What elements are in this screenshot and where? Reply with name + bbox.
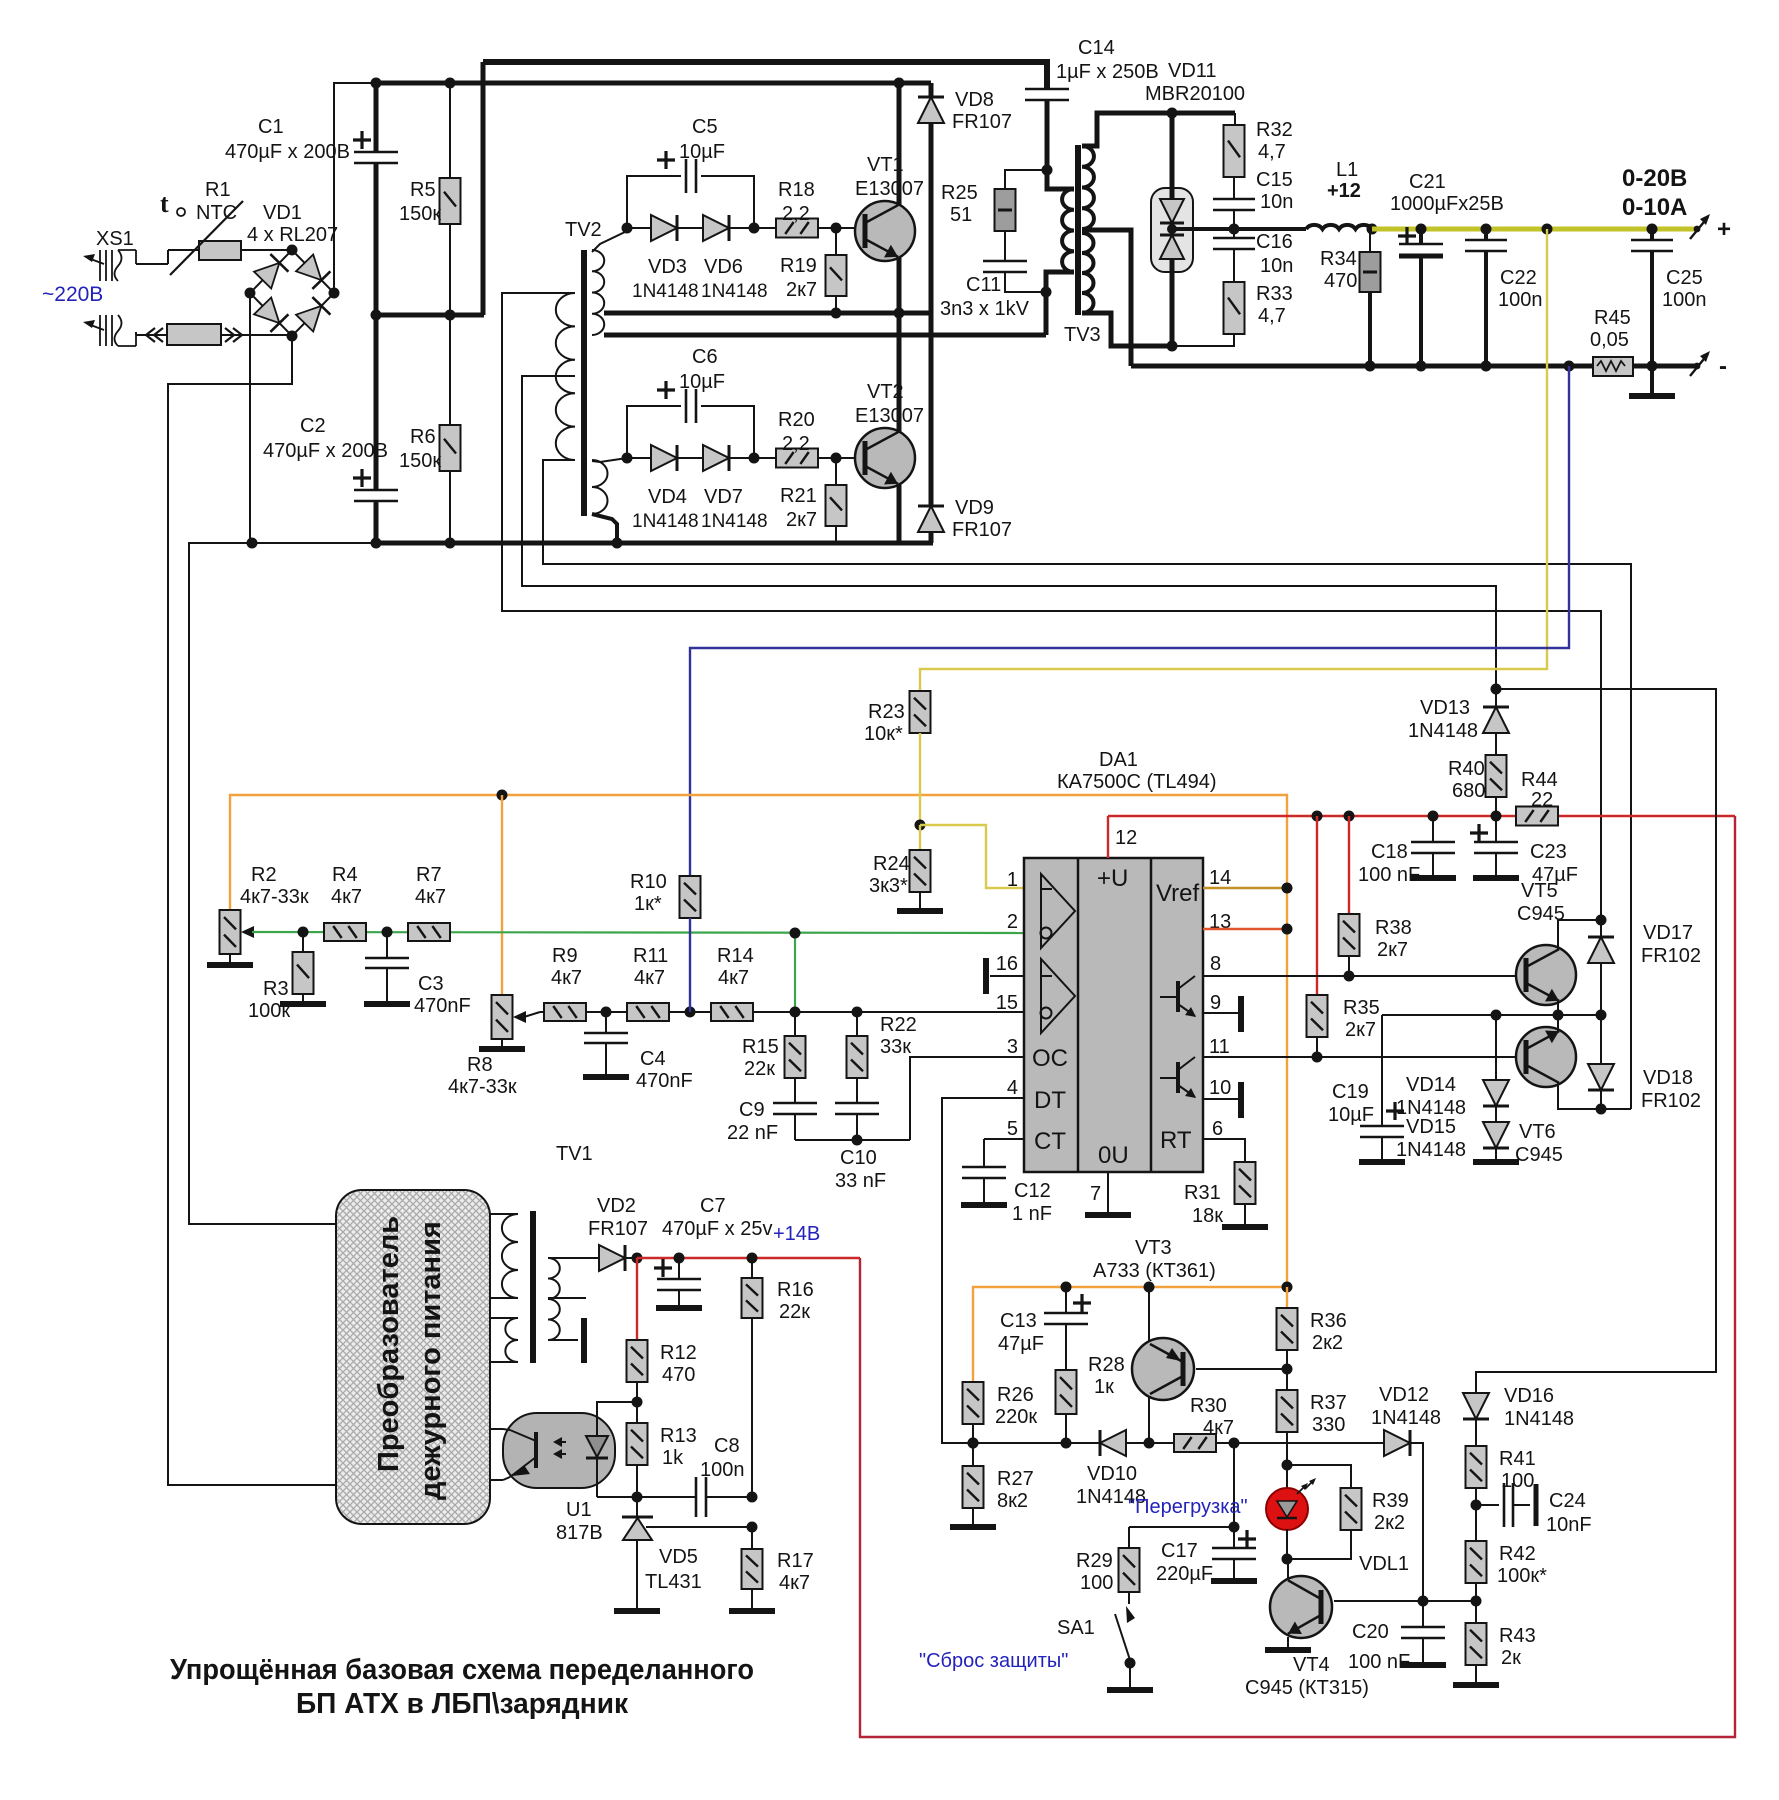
resistor R28 1k [1056,1370,1077,1414]
svg-text:VD11: VD11 [1168,60,1217,82]
svg-text:E13007: E13007 [855,178,924,200]
resistor R5 150k [449,83,451,178]
svg-text:R26: R26 [997,1384,1034,1406]
output transistor 1 inside DA1 [1176,981,1180,1012]
wire red to R38 [1348,816,1350,914]
resistor R41 100 [1475,1419,1477,1446]
resistor R39 2k2 [1341,1488,1362,1530]
svg-text:C945: C945 [1515,1144,1563,1166]
svg-text:2к7: 2к7 [786,509,817,531]
ground under C4 [583,1074,629,1080]
svg-text:470: 470 [662,1364,695,1386]
svg-text:+14В: +14В [773,1223,820,1245]
svg-text:C18: C18 [1371,841,1408,863]
ground under R24 [897,908,943,914]
svg-text:FR107: FR107 [952,519,1012,541]
svg-text:C8: C8 [714,1435,740,1457]
pin 6 wire to R31 [1203,1139,1245,1162]
svg-text:10n: 10n [1260,255,1293,277]
resistor R25 51 snubber [1005,170,1047,189]
transformer TV1 primary winding upper [490,1213,518,1215]
svg-text:XS1: XS1 [96,228,134,250]
ground under C12 [961,1202,1007,1208]
svg-text:100: 100 [1080,1572,1113,1594]
resistor R29 100 [1128,1527,1130,1548]
svg-text:t: t [160,189,169,218]
wire VT5 collector [1558,920,1601,950]
svg-text:R32: R32 [1256,119,1293,141]
resistor R16 22k [751,1258,753,1278]
svg-text:4к7: 4к7 [718,967,749,989]
wire TV3 center tap to minus rail [1082,230,1131,366]
svg-text:4,7: 4,7 [1258,305,1286,327]
svg-text:1µF x 250В: 1µF x 250В [1056,61,1159,83]
svg-text:8к2: 8к2 [997,1490,1028,1512]
svg-text:10к*: 10к* [864,723,903,745]
diode VD6 1N4148 [677,227,704,229]
transformer TV3 secondary winding lower [1082,233,1094,313]
svg-text:TV1: TV1 [556,1143,593,1165]
svg-text:КА7500С (TL494): КА7500С (TL494) [1057,771,1217,793]
resistor R38 2k7 [1339,914,1360,956]
resistor R10 1k [680,876,701,918]
svg-text:Преобразователь: Преобразователь [373,1216,405,1472]
svg-text:2к: 2к [1501,1647,1521,1669]
connector XS1 mains plug [88,258,104,264]
comparator 1 inside DA1 [1041,874,1075,948]
svg-text:А733 (КТ361): А733 (КТ361) [1093,1260,1216,1282]
wire orange emitter rail nodes [1061,1282,1072,1293]
svg-text:22к: 22к [779,1301,810,1323]
svg-text:L1: L1 [1336,159,1358,181]
svg-text:10µF: 10µF [679,141,725,163]
svg-text:R14: R14 [717,945,754,967]
wire TV2 upper secondary top to VD3 [592,228,627,252]
transistor VT4 C945 KT315 [1270,1576,1332,1638]
wire opto collector stub [490,1428,503,1430]
svg-text:33 nF: 33 nF [835,1170,886,1192]
svg-text:1 nF: 1 nF [1012,1203,1052,1225]
svg-text:C22: C22 [1500,267,1537,289]
svg-text:C5: C5 [692,116,718,138]
svg-text:R31: R31 [1184,1182,1221,1204]
wire VT1 emitter to rail [897,257,902,313]
svg-text:+: + [1717,216,1731,243]
svg-text:1N4148: 1N4148 [1408,720,1478,742]
svg-text:1N4148: 1N4148 [632,281,699,302]
bus capacitor midpoint rail [376,313,484,318]
transistor VT2 E13007 [855,428,915,488]
wire bridge right corner to top bus [334,83,378,293]
svg-text:VD4: VD4 [648,486,687,508]
wire bridge bottom to standby converter line [168,336,336,1485]
ground under R2 [207,962,253,968]
resistor R30 4k7 [1174,1434,1216,1452]
transistor VT3 A733 PNP [1132,1338,1194,1400]
comparator 2 inside DA1 [1041,959,1075,1033]
resistor R26 220k [963,1382,984,1424]
wire VT4 emitter to ground [1287,1637,1289,1648]
svg-text:VD7: VD7 [704,486,743,508]
svg-text:14: 14 [1209,867,1231,889]
svg-text:VT5: VT5 [1521,880,1558,902]
switch SA1 reset [1128,1592,1130,1604]
node VD13 top rail junction [1491,684,1502,695]
wire VT4 collector up [1287,1559,1289,1578]
node R12 R13 opto junction [632,1397,643,1408]
svg-text:C25: C25 [1666,267,1703,289]
transformer TV2 primary winding [556,293,575,460]
capacitor C12 1nF [962,1166,1006,1169]
wire VT1 collector to top rail [897,83,902,206]
capacitor C6 10uF [627,406,681,458]
svg-text:18к: 18к [1192,1205,1223,1227]
transformer TV3 core [1075,145,1081,315]
bus red supply rail [1108,815,1516,817]
svg-text:E13007: E13007 [855,405,924,427]
svg-text:RT: RT [1160,1127,1192,1154]
svg-text:NTC: NTC [196,202,237,224]
wire TV2 lower secondary top to VD4 [592,458,627,462]
ground under C18 [1410,875,1456,881]
svg-text:1N4148: 1N4148 [1371,1407,1441,1429]
svg-text:4к7: 4к7 [779,1572,810,1594]
svg-text:150к: 150к [399,203,441,225]
wire TV2 primary bottom to VT6 rail [543,460,1631,1109]
capacitor C7 470uF x 25v [678,1258,680,1278]
resistor R21 2k7 [835,458,837,485]
svg-text:51: 51 [950,204,972,226]
svg-text:-: - [1719,353,1727,380]
svg-text:1N4148: 1N4148 [701,281,768,302]
svg-text:VD10: VD10 [1087,1463,1137,1485]
svg-text:R24: R24 [873,853,910,875]
wire XS1 to fuse [135,332,137,335]
svg-text:R6: R6 [410,426,436,448]
svg-text:дежурного питания: дежурного питания [415,1221,447,1500]
svg-text:TV2: TV2 [565,219,602,241]
resistor R37 330 [1277,1390,1298,1432]
capacitor C8 100n [695,1477,698,1517]
wire LED cathode to VD5 C8 rail [596,1488,598,1497]
diode VD4 1N4148 [627,457,652,459]
wire TV3 primary bottom to return rail [1046,272,1074,335]
resistor R20 2.2 [776,449,818,468]
capacitor C10 33nF [835,1102,879,1105]
svg-text:100n: 100n [700,1459,745,1481]
svg-text:C10: C10 [840,1147,877,1169]
ground under C7 [656,1305,702,1311]
svg-text:33к: 33к [880,1036,911,1058]
svg-text:VT4: VT4 [1293,1654,1330,1676]
svg-text:R22: R22 [880,1014,917,1036]
svg-text:C2: C2 [300,415,326,437]
diode VD13 1N4148 [1495,689,1497,708]
svg-text:1000µFх25В: 1000µFх25В [1390,193,1504,215]
transformer TV2 upper secondary winding [592,250,604,335]
terminal output minus [1694,363,1701,370]
wire VT3 emitter to orange rail [1148,1287,1150,1342]
capacitor C24 10nF [1476,1504,1499,1506]
capacitor C14 1uF x 250V [1025,88,1069,91]
svg-text:4к7: 4к7 [1203,1417,1234,1439]
svg-text:R7: R7 [416,864,442,886]
svg-text:R29: R29 [1076,1550,1113,1572]
svg-text:470nF: 470nF [636,1070,693,1092]
capacitor C15 10n [1213,198,1255,201]
svg-text:VD6: VD6 [704,256,743,278]
svg-text:R19: R19 [780,255,817,277]
svg-text:C1: C1 [258,116,284,138]
svg-text:10µF: 10µF [1328,1104,1374,1126]
wire pin 8 to VT5 base [1203,975,1527,977]
svg-text:C21: C21 [1409,171,1446,193]
svg-text:VD17: VD17 [1643,922,1693,944]
svg-text:1k: 1k [662,1447,684,1469]
svg-text:4к7: 4к7 [415,886,446,908]
svg-text:R13: R13 [660,1425,697,1447]
node R22 top [852,1007,863,1018]
svg-text:VD13: VD13 [1420,697,1470,719]
potentiometer R8 4k7-33k [492,995,513,1039]
resistor R18 2.2 [776,219,818,238]
svg-text:R44: R44 [1521,769,1558,791]
wire VT3 base to R36 R37 [1196,1368,1287,1370]
svg-text:R15: R15 [742,1036,779,1058]
pin 7 wire to ground [1107,1172,1109,1213]
wire VT5 emitter [1557,1001,1559,1015]
svg-text:2: 2 [1007,911,1018,933]
svg-text:VT6: VT6 [1519,1121,1556,1143]
svg-text:БП АТХ в ЛБП\зарядник: БП АТХ в ЛБП\зарядник [296,1688,628,1720]
transformer TV3 primary winding [1062,189,1074,272]
svg-text:1к: 1к [1094,1376,1114,1398]
resistor R12 470 [627,1340,648,1382]
svg-text:220µF: 220µF [1156,1563,1213,1585]
svg-text:4к7-33к: 4к7-33к [240,886,309,908]
bus minus output rail [1131,364,1593,369]
pin 9 stub with bar [1203,1012,1238,1014]
resistor R9 4k7 [544,1003,586,1021]
wire R30 to C17 branch [1233,1443,1235,1527]
wire node to opto collector [597,1402,637,1413]
svg-text:100n: 100n [1662,289,1707,311]
wire R1 to bridge [241,249,292,251]
svg-text:R27: R27 [997,1468,1034,1490]
wire green branch down to R15 [794,933,796,1012]
svg-text:+U: +U [1097,865,1128,892]
svg-text:R12: R12 [660,1342,697,1364]
capacitor C22 100n [1484,229,1488,239]
wire feedback chain pin15 [524,1012,540,1017]
resistor R31 18k [1235,1162,1256,1204]
svg-text:R35: R35 [1343,997,1380,1019]
optocoupler U1 817B [503,1413,615,1488]
svg-text:R2: R2 [251,864,277,886]
svg-text:VD14: VD14 [1406,1074,1456,1096]
resistor R27 8k2 [972,1443,974,1466]
svg-text:VD8: VD8 [955,89,994,111]
node R9-R11 C4 junction [601,1007,612,1018]
resistor R14 4k7 [711,1003,753,1021]
wire TL431 ref to R16 R17 junction [646,1526,752,1528]
capacitor C13 47uF [1065,1287,1067,1312]
capacitor C23 47uF [1495,816,1497,841]
wire VT6 emitter up [1557,1015,1559,1031]
capacitor C2 470uF x 200V [374,315,379,490]
svg-text:470nF: 470nF [414,995,471,1017]
ground under C17 [1211,1578,1257,1584]
pin 12 wire +U supply red [1107,816,1109,858]
svg-text:3n3 x 1kV: 3n3 x 1kV [940,298,1030,320]
bus emitter rail y1015 [1382,1014,1601,1016]
diode VD9 FR107 [929,313,934,506]
diode VD2 FR107 [599,1245,625,1271]
svg-text:10: 10 [1209,1077,1231,1099]
resistor R32 4.7 [1234,113,1236,125]
diode VD10 1N4148 [1100,1430,1126,1456]
wire pin 5 to C12 [984,1138,1024,1140]
svg-text:VD5: VD5 [659,1546,698,1568]
wire top bus to midpoint rail [481,62,486,315]
diode VD14 1N4148 [1495,1015,1497,1084]
svg-text:VD9: VD9 [955,497,994,519]
svg-text:R43: R43 [1499,1625,1536,1647]
ground under C3 [364,1001,410,1007]
svg-text:C20: C20 [1352,1621,1389,1643]
svg-text:0-20В: 0-20В [1622,165,1687,192]
capacitor C25 100n [1650,229,1654,239]
resistor R4 4k7 [324,923,366,941]
svg-text:1N4148: 1N4148 [632,511,699,532]
svg-text:2,2: 2,2 [782,433,810,455]
svg-text:C23: C23 [1530,841,1567,863]
wire TV3 secondary top to VD11 [1082,113,1235,146]
ground under SA1 [1107,1687,1153,1693]
wire pin 11 to VT6 base [1203,1056,1527,1058]
svg-text:470µF x 200В: 470µF x 200В [263,440,388,462]
wire VT2 emitter to bottom rail [897,484,902,543]
svg-text:Vref: Vref [1156,880,1199,907]
svg-text:3к3*: 3к3* [869,875,908,897]
svg-text:100: 100 [1501,1470,1534,1492]
svg-text:R3: R3 [263,978,289,1000]
svg-text:9: 9 [1210,992,1221,1014]
pin 16 stub with bar [990,975,1024,977]
ground under C23 [1473,875,1519,881]
svg-text:10n: 10n [1260,191,1293,213]
transformer TV2 lower secondary winding [592,460,608,514]
inductor L1 +12 winding [1306,225,1372,229]
svg-text:R38: R38 [1375,917,1412,939]
svg-text:11: 11 [1209,1036,1230,1058]
svg-text:DT: DT [1034,1087,1066,1114]
svg-text:4,7: 4,7 [1258,141,1286,163]
svg-text:VD3: VD3 [648,256,687,278]
svg-text:4 x RL207: 4 x RL207 [247,224,338,246]
svg-text:4: 4 [1007,1077,1018,1099]
capacitor C4 470nF [605,1012,607,1032]
svg-text:12: 12 [1115,827,1137,849]
wire VD11 cathode to L1 [1172,227,1306,231]
resistor R43 2k [1475,1601,1477,1623]
svg-text:FR107: FR107 [588,1218,648,1240]
wire LED cathode to node [1286,1529,1288,1559]
svg-text:10µF: 10µF [679,371,725,393]
svg-text:VT3: VT3 [1135,1237,1172,1259]
svg-text:2к7: 2к7 [1345,1019,1376,1041]
resistor R13 1k [636,1402,638,1423]
resistor R3 100k [302,932,304,952]
wire TV2 primary tap to VD13 rail [522,376,1496,689]
resistor R40 680 [1486,755,1507,797]
svg-text:U1: U1 [566,1499,592,1521]
svg-text:FR102: FR102 [1641,945,1701,967]
resistor R33 4.7 [1224,282,1245,334]
resistor R34 470 [1369,229,1371,252]
node R14 R15 green junction [790,1007,801,1018]
resistor R15 22k [794,1012,796,1036]
svg-text:47µF: 47µF [998,1333,1044,1355]
diode VD8 FR107 [929,83,934,97]
capacitor C17 220uF [1233,1527,1235,1547]
ground under R43 [1453,1682,1499,1688]
svg-text:0,05: 0,05 [1590,329,1629,351]
svg-text:2,2: 2,2 [782,203,810,225]
svg-text:R5: R5 [410,179,436,201]
svg-text:R37: R37 [1310,1392,1347,1414]
dual diode VD11 MBR20100 [1151,188,1193,272]
svg-text:R39: R39 [1372,1490,1409,1512]
ground under R31 [1222,1224,1268,1230]
wire TV2 lower secondary bottom to rail [592,514,617,543]
svg-text:C12: C12 [1014,1180,1051,1202]
wire TV1 secondary mid tap [548,1297,586,1299]
svg-text:R34: R34 [1320,248,1357,270]
svg-text:C9: C9 [739,1099,765,1121]
svg-text:C6: C6 [692,346,718,368]
transformer TV3 secondary winding upper [1082,146,1094,229]
resistor R7 4k7 [408,923,450,941]
svg-text:4к7: 4к7 [551,967,582,989]
transformer TV1 primary winding lower [490,1317,518,1319]
svg-text:R10: R10 [630,871,667,893]
wire pin 13 to orange rail [1203,928,1287,930]
capacitor C1 470uF x 200V [374,83,379,152]
svg-text:2к2: 2к2 [1374,1512,1405,1534]
svg-text:R8: R8 [467,1054,493,1076]
svg-text:VD16: VD16 [1504,1385,1554,1407]
fuse FU [167,324,221,345]
resistor R42 100k [1466,1541,1487,1583]
svg-text:R18: R18 [778,179,815,201]
LED VDL1 overload red [1286,1465,1288,1488]
svg-text:OC: OC [1032,1045,1068,1072]
ground under R3 [280,1001,326,1007]
bus primary return rail bottom [188,542,376,544]
capacitor C19 10uF [1381,1015,1383,1125]
wire red +14V loop [860,816,1735,1737]
svg-text:C17: C17 [1161,1540,1198,1562]
svg-text:DA1: DA1 [1099,749,1138,771]
ground under R8 [479,1046,525,1052]
ground under R17 [729,1608,775,1614]
capacitor C20 100nF [1422,1601,1424,1626]
svg-text:4к7-33к: 4к7-33к [448,1076,517,1098]
svg-text:470: 470 [1324,270,1357,292]
wire VT4 base rail [1334,1600,1476,1602]
svg-text:R41: R41 [1499,1448,1536,1470]
